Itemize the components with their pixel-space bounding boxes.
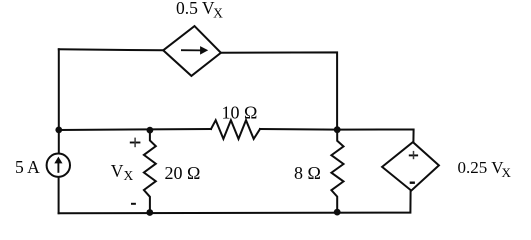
svg-text:0.25 VX: 0.25 VX <box>458 158 512 180</box>
svg-text:8 Ω: 8 Ω <box>294 163 321 183</box>
svg-text:VX: VX <box>111 161 134 183</box>
svg-text:20 Ω: 20 Ω <box>165 163 201 183</box>
svg-text:10 Ω: 10 Ω <box>222 103 258 123</box>
svg-text:5 A: 5 A <box>15 157 40 177</box>
svg-text:0.5 VX: 0.5 VX <box>176 0 223 21</box>
